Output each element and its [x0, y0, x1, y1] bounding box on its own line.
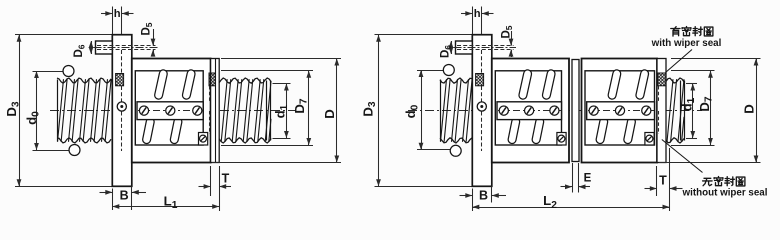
nut1 screw 3 [550, 106, 559, 115]
dimension T right figure [656, 166, 658, 196]
strap screw 1 [139, 106, 148, 115]
callout text: you mi feng quan (with seal) [671, 27, 680, 36]
screw thread left of nut right figure [441, 79, 473, 142]
strap screw 2 [166, 106, 175, 115]
tube housing nut 1 [495, 71, 561, 145]
tube housing nut 2 [585, 71, 655, 145]
dimension D7 right figure [710, 71, 712, 145]
nut2 screw 3 [642, 106, 651, 115]
seal hidden line nut2 [658, 86, 660, 101]
dimension E [572, 163, 574, 193]
dimension L2 [472, 207, 669, 209]
ext lines D right figure [671, 58, 761, 60]
tube clamp strap [137, 102, 203, 120]
svg-text:E: E [584, 173, 592, 185]
return tube nut2 lower B [628, 122, 632, 140]
svg-text:D: D [322, 109, 337, 119]
nut body [132, 59, 211, 163]
wiper seal hatch nut2 end [658, 73, 666, 86]
dimension d0 right figure [417, 70, 444, 72]
oil passage dashed line in flange [121, 50, 123, 73]
callout with wiper seal leader [666, 50, 693, 73]
svg-text:D: D [742, 104, 757, 114]
return tube upper B [186, 74, 191, 95]
thread end face right figure [680, 81, 682, 141]
ext lines d1 right figure [686, 83, 697, 85]
return tube lower A [147, 122, 151, 140]
dimension L1 left figure [112, 206, 219, 208]
end cap nut 2 [657, 59, 666, 163]
nut1 screw 1 [499, 106, 508, 115]
return tube nut1 upper B [546, 74, 551, 95]
nut1 screw 2 [525, 106, 534, 115]
svg-text:with wiper seal: with wiper seal [651, 38, 722, 49]
tube end bracket nut2 [645, 133, 654, 146]
screw thread left of nut [58, 79, 112, 142]
flange [112, 35, 132, 187]
strap centerline [138, 110, 203, 112]
bolt hole circle on flange [117, 102, 126, 111]
bolt hole circle right figure [477, 102, 486, 111]
dimension B left figure [112, 189, 114, 211]
strap nut 1 [497, 102, 562, 120]
thread end face [266, 81, 268, 141]
screw thread with wiper seal [667, 79, 684, 142]
dimension d0 left figure [33, 71, 65, 73]
return tube nut2 upper B [640, 74, 645, 95]
return tube nut2 upper A [612, 74, 617, 95]
dimension d1 right figure [692, 84, 694, 139]
dimension D3 left figure [15, 34, 113, 36]
dimension D5 [153, 29, 155, 46]
svg-text:B: B [479, 189, 488, 203]
ext lines D left figure [221, 58, 341, 60]
seal hidden line right end [209, 86, 211, 101]
centerline right figure [408, 110, 702, 112]
ball bottom right figure [450, 145, 461, 156]
return tube lower B [174, 122, 178, 140]
wiper seal hatch at flange right figure [476, 74, 484, 86]
dimension D6 [91, 41, 93, 54]
ext lines D7 left figure [221, 70, 313, 72]
return tube nut1 lower B [536, 122, 540, 140]
svg-text:B: B [120, 188, 129, 202]
dimension D5 right figure [511, 31, 513, 46]
ball top left thread [63, 66, 74, 77]
dimension B right figure [472, 189, 474, 212]
nut body 1 [492, 59, 569, 163]
dimension D right figure [756, 59, 758, 163]
strap nut 2 [587, 102, 655, 120]
dimension D6 right figure [451, 41, 453, 54]
grease boss D6 [96, 41, 113, 54]
nut body 2 [582, 59, 658, 163]
callout text: wu mi feng quan (no seal) [703, 178, 713, 185]
bracket screw [200, 135, 207, 142]
oil passage dashed line right figure [481, 50, 483, 73]
ext lines d1 left figure [273, 83, 291, 85]
wiper seal hatch at flange [116, 74, 124, 86]
centerline left figure [50, 110, 296, 112]
tube end bracket nut1 [557, 133, 566, 146]
return tube nut1 upper A [523, 74, 528, 95]
tube end bracket [199, 133, 208, 146]
nut2 screw 2 [615, 106, 624, 115]
dimension D left figure [336, 59, 338, 163]
return tube upper A [159, 74, 164, 95]
dimension T left figure [210, 166, 212, 196]
ball top right figure [443, 65, 454, 76]
dimension D3 right figure [375, 34, 473, 36]
tube housing inner rect [135, 71, 203, 145]
svg-text:without wiper seal: without wiper seal [682, 187, 768, 198]
strap screw 3 [193, 106, 202, 115]
end cap [211, 59, 220, 163]
svg-text:h: h [474, 8, 481, 20]
ball bottom left thread [69, 145, 80, 156]
callout without wiper seal leader [662, 140, 703, 173]
flange right figure [472, 35, 492, 187]
preload spacer [572, 60, 579, 162]
svg-text:h: h [114, 8, 121, 20]
svg-text:T: T [222, 172, 230, 186]
end cap inner line [215, 59, 217, 162]
oil hole hidden lines [97, 45, 156, 47]
ext lines D7 right figure [671, 70, 715, 72]
oil hole hidden lines right figure [457, 45, 514, 47]
svg-text:T: T [659, 174, 667, 188]
dimension h [112, 7, 114, 35]
dimension h right figure [472, 7, 474, 35]
dimension d1 left figure [286, 84, 288, 139]
return tube nut1 lower A [512, 122, 516, 140]
return tube nut2 lower A [600, 122, 604, 140]
screw thread right of nut [221, 79, 271, 142]
dimension D7 left figure [308, 71, 310, 145]
grease boss right figure [456, 41, 473, 54]
wiper seal hatch right end [209, 73, 215, 86]
nut2 screw 1 [589, 106, 598, 115]
